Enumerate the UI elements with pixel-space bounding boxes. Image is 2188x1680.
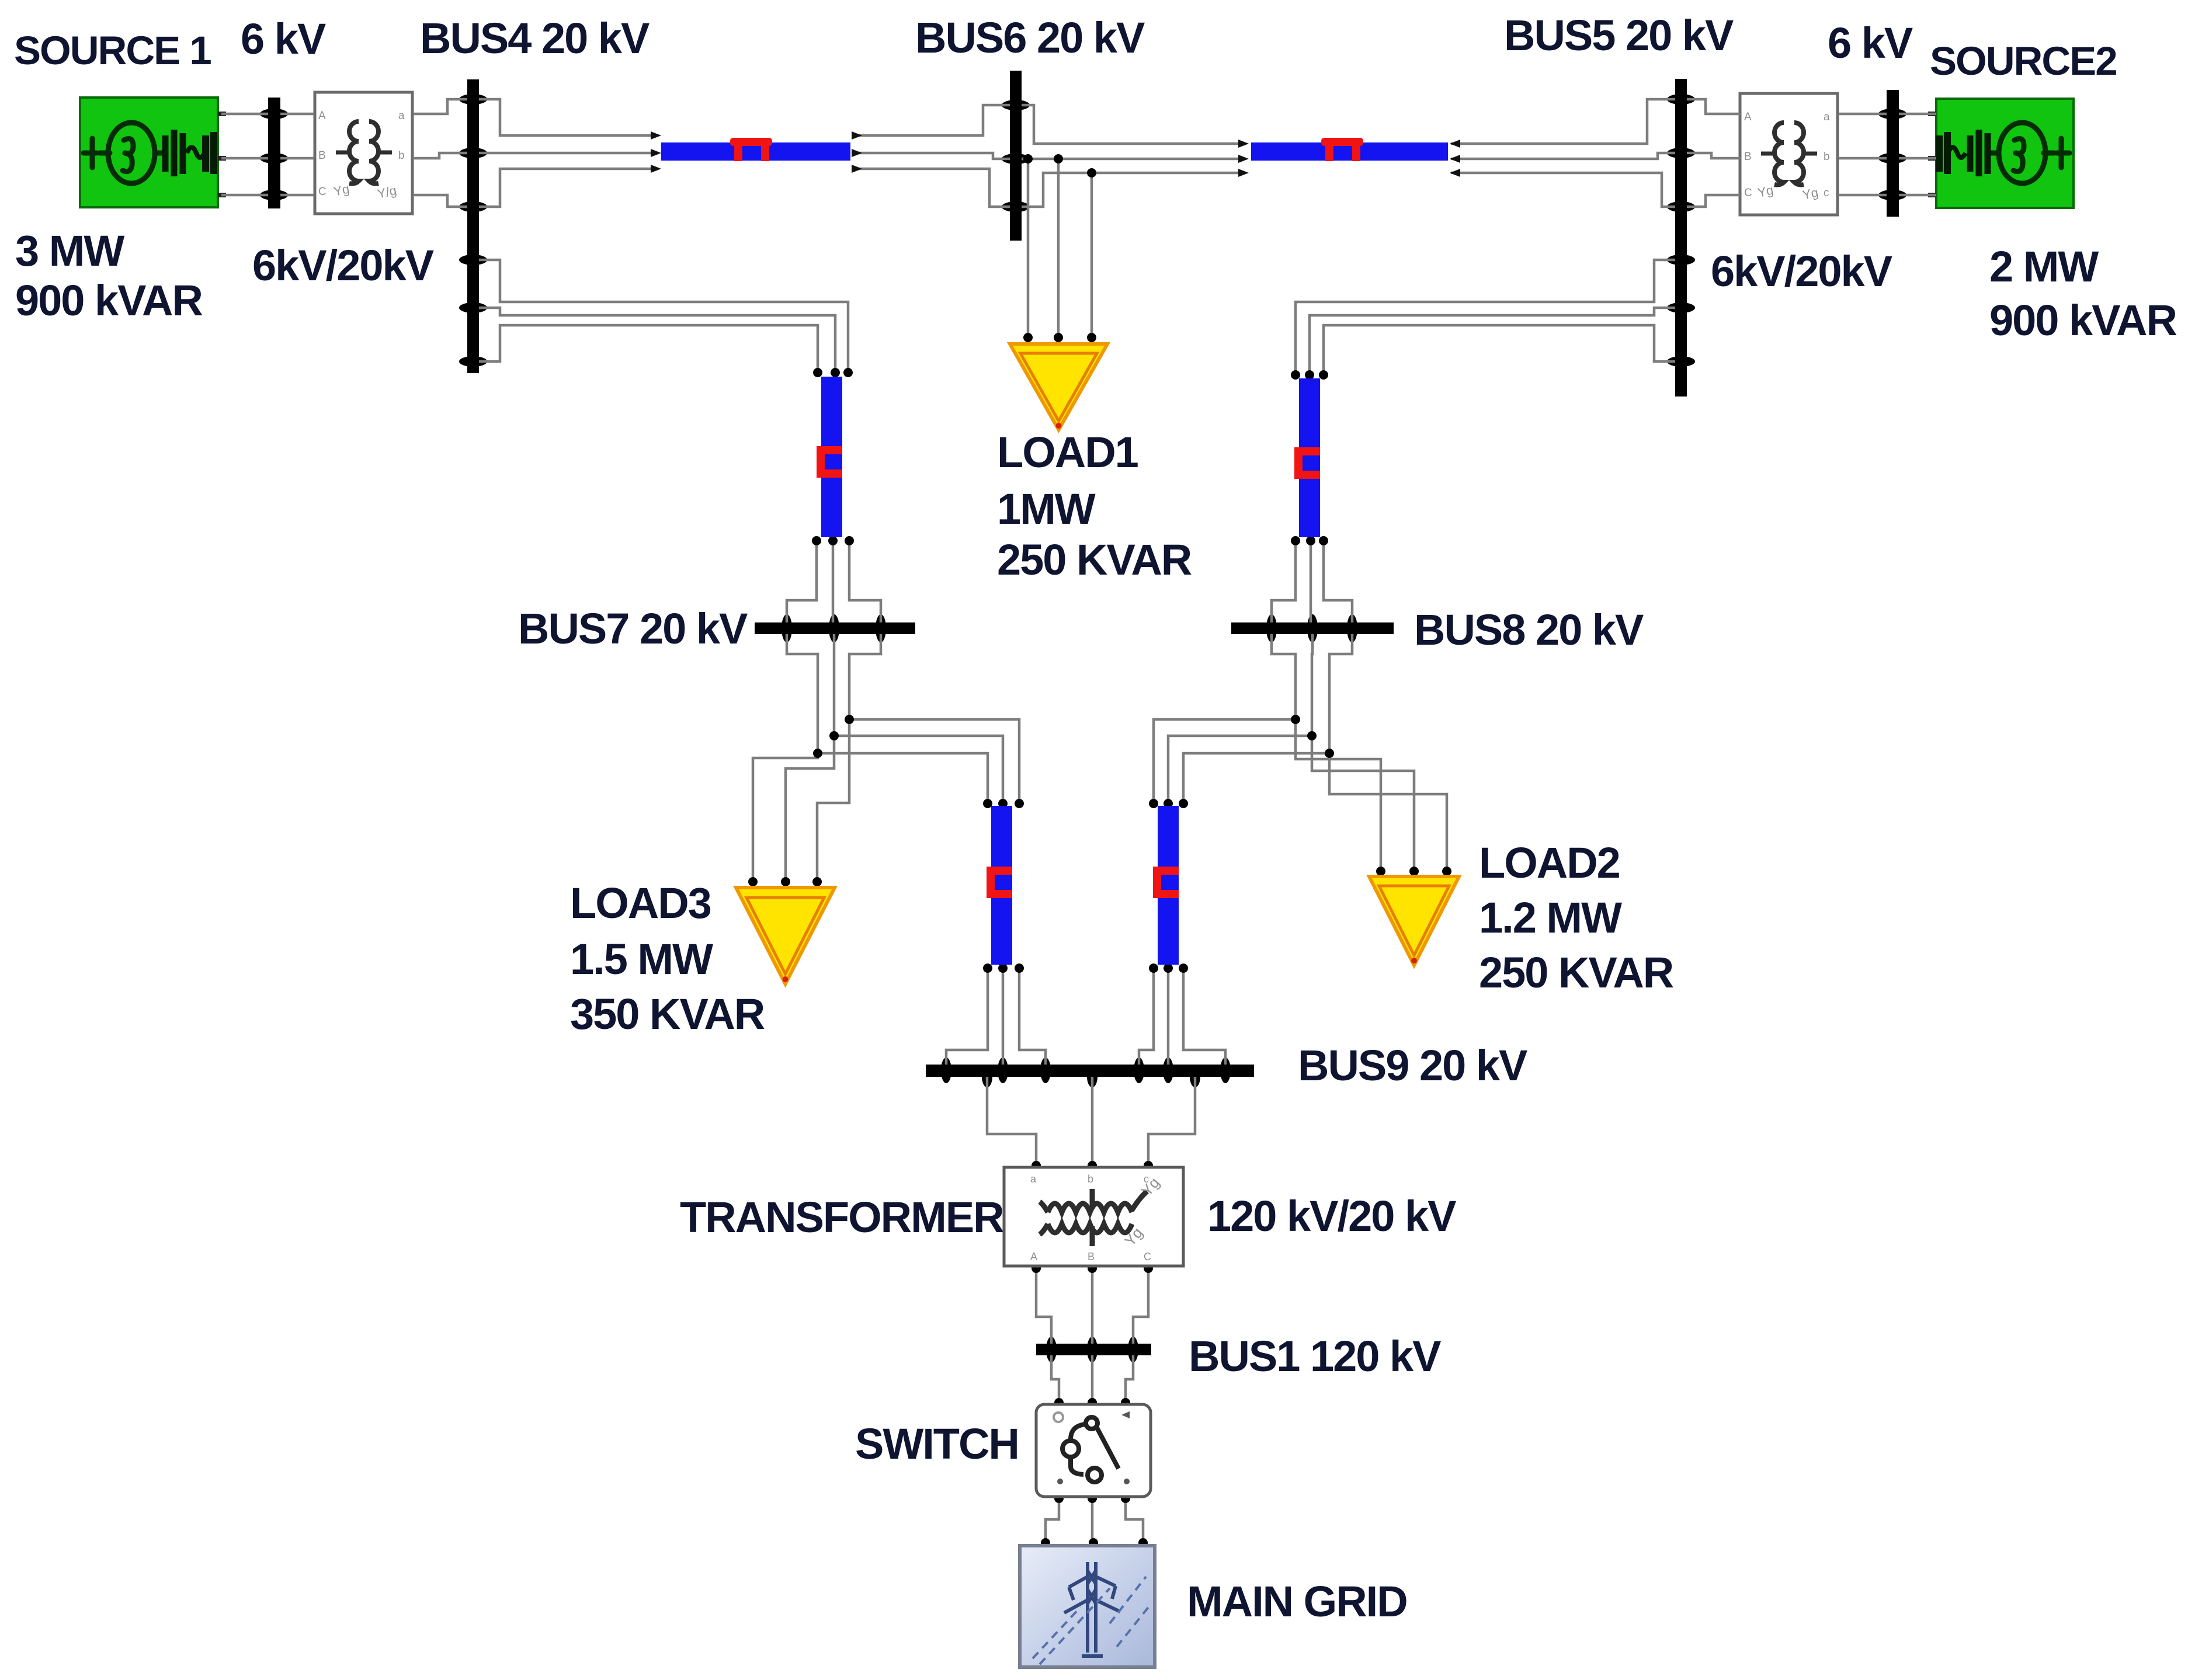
node LOAD3 terminals: [748, 877, 758, 886]
node PI-line3 bottom terminals: [812, 536, 821, 545]
node main transformer top terminals: [1032, 1161, 1041, 1170]
node BUS6 tap C down: [1087, 168, 1096, 178]
svg-text:A: A: [318, 110, 326, 122]
wire BUS7 junction to PI-line5 phase C: [849, 719, 1019, 800]
node PI-line5 bottom terminals: [983, 964, 992, 973]
bus 6kV bus left: [260, 98, 288, 208]
svg-text:BUS4 20 kV: BUS4 20 kV: [420, 14, 650, 62]
wire T1 to BUS4 phase C: [413, 195, 467, 207]
wire BUS9 to main transformer phase A: [987, 1077, 1036, 1166]
wire PI-line1 to BUS6 phase B: [853, 153, 1010, 159]
wire main transformer to BUS1 phase C: [1133, 1268, 1148, 1344]
wire BUS1 to SWITCH phase C: [1126, 1355, 1133, 1401]
wire BUS6 down to LOAD1 phase A: [1022, 159, 1028, 338]
wire BUS8 down leg A: [1272, 634, 1296, 719]
svg-text:6kV/20kV: 6kV/20kV: [1711, 247, 1892, 295]
wire BUS5 lower to PI-line2v phase A: [1296, 260, 1675, 373]
bus BUS9 20 kV: [926, 1058, 1254, 1087]
bus BUS7 20 kV: [755, 614, 915, 642]
node BUS7 junction A: [813, 749, 822, 758]
wire PI-line1 to BUS6 phase A: [853, 105, 1010, 135]
wire BUS5 to T2 phase A: [1687, 99, 1740, 114]
wire SWITCH to MAIN GRID phase A: [1046, 1497, 1059, 1543]
node MAIN GRID terminals: [1041, 1538, 1050, 1547]
svg-text:A: A: [1030, 1251, 1037, 1262]
bus 6kV bus right: [1878, 90, 1906, 217]
arrowheads into PI-line1: [651, 131, 1460, 177]
wire BUS7 junction to PI-line5 phase A: [818, 753, 988, 800]
wire BUS5 to T2 phase B: [1687, 153, 1740, 158]
wire BUS6 down to LOAD1 phase B: [1057, 159, 1060, 338]
pi-section line L3 (BUS4-BUS7, vertical): [817, 377, 842, 537]
wire 6kV bus to T1 phase C: [280, 194, 314, 197]
wire PI-line5 bottom to BUS9 phase C: [1019, 971, 1046, 1065]
wire PI-line2 to BUS5 phase A: [1451, 99, 1675, 144]
svg-text:BUS9 20 kV: BUS9 20 kV: [1298, 1041, 1527, 1090]
switch middle contact: [1062, 1441, 1079, 1457]
bus BUS8 20 kV: [1231, 614, 1394, 642]
wire BUS8 junction to PI-line4 phase A: [1154, 719, 1296, 800]
wire SWITCH to MAIN GRID phase C: [1126, 1497, 1143, 1543]
wire BUS7 junction to LOAD3 phase A: [753, 753, 818, 879]
LABELS-TOP: [14, 11, 2176, 345]
wire PI-line4 bottom to BUS9 phase B: [1167, 971, 1170, 1065]
switch pivot: [1086, 1417, 1098, 1429]
wire SWITCH to MAIN GRID phase B: [1091, 1497, 1094, 1543]
load LOAD2 (yellow triangle): [1369, 876, 1459, 965]
node main transformer bottom terminals: [1032, 1264, 1041, 1273]
pi-section line L1 (BUS4-BUS6, horizontal): [661, 138, 850, 161]
port A of SOURCE2: [1928, 112, 1936, 116]
wire 6kV bus to T1 phase A: [280, 113, 314, 116]
BOTTOM-CHAIN: [1004, 1167, 1183, 1667]
svg-text:TRANSFORMER: TRANSFORMER: [680, 1193, 1003, 1241]
svg-text:B: B: [318, 149, 326, 162]
switch lever: [1097, 1428, 1119, 1469]
svg-text:c: c: [1144, 1173, 1149, 1185]
svg-text:LOAD3: LOAD3: [570, 879, 711, 927]
wire BUS8 junction to LOAD2 phase B: [1312, 736, 1414, 869]
wire main transformer to BUS1 phase A: [1036, 1268, 1051, 1344]
wire BUS7 down leg C: [849, 634, 881, 719]
wire BUS6 to PI-line2 phase B: [1022, 158, 1239, 161]
svg-text:6kV/20kV: 6kV/20kV: [252, 241, 434, 290]
wire T2 to 6kV bus right phase C: [1839, 194, 1887, 197]
node LOAD2 terminals: [1376, 867, 1385, 876]
switch SW (three-phase breaker): [1036, 1404, 1151, 1497]
svg-text:BUS8 20 kV: BUS8 20 kV: [1414, 606, 1644, 654]
pylon mast: [1088, 1562, 1096, 1653]
node PI-line2v bottom terminals: [1291, 536, 1300, 545]
transformer TR main 120kV/20kV: [1004, 1167, 1183, 1266]
node BUS6 tap A down: [1023, 154, 1033, 164]
port B of SOURCE1: [218, 156, 226, 161]
svg-text:LOAD1: LOAD1: [997, 428, 1138, 476]
load LOAD1 (yellow triangle): [1010, 344, 1107, 430]
wire PI-line3 bottom to BUS7 phase C: [849, 543, 881, 622]
wire BUS8 down leg C: [1329, 634, 1352, 753]
BUSBARS: [260, 71, 1906, 1362]
node PI-line4 top terminals: [1149, 799, 1158, 808]
source SOURCE1 (green generator block): [80, 98, 226, 207]
LABELS-MID: [518, 428, 1673, 1090]
wire BUS4 lower to PI-line3 phase A: [479, 260, 848, 370]
node PI-line5 top terminals: [983, 799, 992, 808]
svg-text:b: b: [1824, 151, 1830, 163]
wire PI-line2 to BUS5 phase C: [1451, 173, 1675, 207]
bus BUS1 120 kV: [1036, 1337, 1151, 1362]
wire SOURCE1 phase B to 6kV bus: [221, 157, 268, 160]
port B of SOURCE2: [1928, 156, 1936, 161]
wire BUS7 down leg A: [787, 634, 818, 753]
svg-text:A: A: [1744, 111, 1752, 123]
port A of SOURCE1: [218, 112, 226, 116]
wire BUS7 junction to LOAD3 phase C: [817, 719, 849, 879]
wire PI-line5 bottom to BUS9 phase B: [1002, 971, 1005, 1065]
wire 6kV bus right to SOURCE2 phase C: [1899, 194, 1936, 197]
node BUS8 junction B: [1307, 731, 1317, 740]
svg-text:3 MW: 3 MW: [15, 227, 124, 275]
svg-text:C: C: [1144, 1251, 1151, 1262]
node LOAD1 terminals: [1023, 333, 1033, 342]
svg-text:BUS5 20 kV: BUS5 20 kV: [1504, 11, 1734, 60]
svg-text:6 kV: 6 kV: [1828, 19, 1913, 67]
node BUS8 junction A: [1291, 715, 1300, 724]
svg-text:SOURCE 1: SOURCE 1: [14, 28, 211, 73]
LOADS: [736, 344, 1459, 984]
wire T2 to 6kV bus right phase A: [1839, 113, 1887, 116]
wire PI-line1 to BUS6 phase C: [853, 169, 1010, 207]
wire BUS9 to main transformer phase C: [1148, 1077, 1195, 1166]
wire BUS6 down to LOAD1 phase C: [1090, 173, 1093, 338]
wire PI-line2v bottom to BUS8 phase B: [1310, 543, 1312, 622]
bus BUS4 20 kV: [459, 79, 487, 373]
svg-text:a: a: [1824, 111, 1830, 123]
wire BUS8 junction to LOAD2 phase A: [1296, 719, 1381, 869]
node PI-line4 bottom terminals: [1149, 964, 1158, 973]
svg-text:LOAD2: LOAD2: [1479, 839, 1620, 887]
transformer T1 6kV/20kV (left): [315, 92, 412, 214]
LABELS-BOTTOM: [680, 1192, 1456, 1626]
wire BUS4 lower to PI-line3 phase B: [479, 308, 835, 370]
svg-text:1MW: 1MW: [997, 485, 1096, 533]
switch elbow to middle contact: [1071, 1424, 1085, 1439]
svg-text:b: b: [398, 149, 405, 162]
node PI-line2v top terminals: [1291, 370, 1300, 380]
pi-section line L5 (BUS7-BUS9, vertical): [987, 806, 1012, 965]
node PI-line3 top terminals: [813, 368, 822, 377]
wire PI-line4 bottom to BUS9 phase C: [1183, 971, 1225, 1065]
wire T1 to BUS4 phase B: [413, 153, 467, 158]
wire PI-line2v bottom to BUS8 phase C: [1324, 543, 1352, 622]
wire BUS8 junction to LOAD2 phase C: [1329, 753, 1447, 869]
wire BUS8 down leg B: [1312, 634, 1312, 736]
wire BUS5 to T2 phase C: [1687, 195, 1740, 207]
svg-text:C: C: [1744, 187, 1752, 199]
port C of SOURCE2: [1928, 193, 1936, 197]
svg-text:1.5 MW: 1.5 MW: [570, 935, 713, 983]
switch lower contact: [1088, 1468, 1102, 1482]
wire PI-line2 to BUS5 phase B: [1451, 153, 1675, 159]
TRANSFORMERS-SMALL: [315, 92, 1838, 215]
wire BUS7 junction to PI-line5 phase B: [834, 736, 1003, 800]
wire BUS8 junction to PI-line4 phase C: [1183, 753, 1329, 800]
wire BUS5 lower to PI-line2v phase C: [1324, 325, 1675, 373]
source SOURCE2 (green generator block): [1928, 99, 2074, 208]
crossarms: [1069, 1577, 1116, 1587]
wire 6kV bus right to SOURCE2 phase A: [1899, 113, 1936, 116]
wire PI-line5 bottom to BUS9 phase A: [946, 971, 988, 1065]
svg-text:2 MW: 2 MW: [1989, 242, 2099, 291]
wire PI-line3 bottom to BUS7 phase A: [787, 543, 817, 622]
node SWITCH bottom terminals: [1054, 1494, 1064, 1503]
port C of SOURCE1: [218, 193, 226, 197]
svg-text:1.2 MW: 1.2 MW: [1479, 893, 1622, 942]
svg-text:250 KVAR: 250 KVAR: [1479, 948, 1673, 997]
svg-text:6 kV: 6 kV: [241, 15, 326, 63]
node BUS7 junction C: [845, 715, 854, 724]
svg-text:B: B: [1088, 1251, 1095, 1262]
SOURCES: [80, 98, 2074, 208]
switch lower link: [1071, 1457, 1083, 1474]
wire BUS4 lower to PI-line3 phase C: [479, 325, 818, 370]
node SWITCH top terminals: [1054, 1398, 1064, 1407]
pi-section line L2 (BUS6-BUS5, horizontal): [1251, 138, 1448, 161]
wire BUS8 junction to PI-line4 phase B: [1168, 736, 1312, 800]
wire BUS1 to SWITCH phase B: [1091, 1355, 1094, 1401]
PILINES: [661, 138, 1448, 965]
wire BUS1 to SWITCH phase A: [1051, 1355, 1059, 1401]
svg-text:BUS7 20 kV: BUS7 20 kV: [518, 604, 748, 653]
svg-text:350 KVAR: 350 KVAR: [570, 990, 765, 1038]
svg-text:c: c: [1824, 187, 1829, 199]
svg-text:a: a: [1030, 1173, 1037, 1185]
wire PI-line2v bottom to BUS8 phase A: [1272, 543, 1296, 622]
wire BUS6 to PI-line2 phase C: [1022, 173, 1239, 207]
node BUS6 tap B down: [1054, 154, 1063, 164]
wire BUS4 to PI-line1 phase B: [479, 152, 658, 155]
main grid block: [1020, 1546, 1155, 1667]
svg-text:a: a: [398, 110, 405, 122]
svg-text:BUS1 120 kV: BUS1 120 kV: [1189, 1332, 1441, 1380]
svg-text:B: B: [1744, 151, 1752, 163]
svg-text:C: C: [318, 186, 327, 198]
wire BUS4 to PI-line1 phase A: [479, 99, 658, 135]
pi-section line L2v (BUS5-BUS8, vertical): [1294, 378, 1320, 537]
wire BUS6 to PI-line2 phase A: [1022, 105, 1239, 144]
wire main transformer to BUS1 phase B: [1091, 1268, 1094, 1344]
svg-text:900 kVAR: 900 kVAR: [1989, 296, 2176, 345]
load LOAD3 (yellow triangle): [736, 888, 835, 984]
wire BUS4 to PI-line1 phase C: [479, 169, 658, 207]
pi-section line L4 (BUS8-BUS9, vertical): [1153, 806, 1179, 965]
wire SOURCE1 phase C to 6kV bus: [221, 194, 268, 197]
wire PI-line4 bottom to BUS9 phase A: [1139, 971, 1154, 1065]
svg-text:120 kV/20 kV: 120 kV/20 kV: [1207, 1192, 1456, 1240]
wire 6kV bus to T1 phase B: [280, 157, 314, 160]
svg-text:250 KVAR: 250 KVAR: [997, 535, 1192, 584]
wire 6kV bus right to SOURCE2 phase B: [1899, 157, 1936, 160]
node BUS8 junction C: [1325, 749, 1334, 758]
svg-text:900 kVAR: 900 kVAR: [15, 276, 202, 325]
wire PI-line3 bottom to BUS7 phase B: [832, 543, 835, 622]
svg-text:SWITCH: SWITCH: [855, 1420, 1019, 1468]
wire BUS5 lower to PI-line2v phase B: [1310, 308, 1675, 373]
wire T2 to 6kV bus right phase B: [1839, 157, 1887, 160]
svg-text:SOURCE2: SOURCE2: [1930, 39, 2117, 84]
bus BUS5 20 kV: [1667, 79, 1695, 396]
svg-text:MAIN GRID: MAIN GRID: [1187, 1577, 1407, 1626]
wire BUS7 down leg B: [833, 634, 836, 736]
svg-text:BUS6 20 kV: BUS6 20 kV: [915, 13, 1145, 62]
node BUS7 junction B: [829, 731, 839, 740]
wire BUS7 junction to LOAD3 phase B: [786, 736, 834, 879]
transformer T2 6kV/20kV (right): [1740, 93, 1838, 215]
wire SOURCE1 phase A to 6kV bus: [221, 113, 268, 116]
wire T1 to BUS4 phase A: [413, 99, 467, 114]
bus BUS6 20 kV: [1002, 71, 1030, 241]
svg-text:b: b: [1088, 1173, 1093, 1185]
wire BUS9 to main transformer phase B: [1091, 1077, 1094, 1166]
junction and terminal dots: [748, 154, 1451, 1547]
